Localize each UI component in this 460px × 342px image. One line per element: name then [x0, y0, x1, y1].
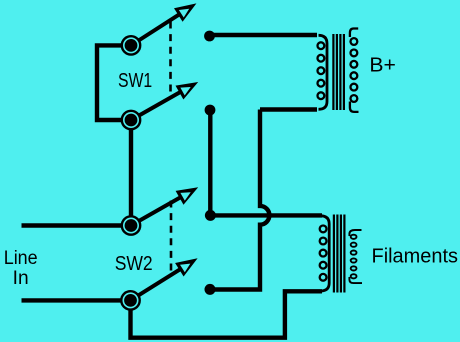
SW1 lower pole contact	[122, 111, 140, 129]
switch SW2 lower blade	[138, 258, 198, 295]
SW2 lower pole contact	[121, 291, 139, 309]
SW1 gang dashed link	[169, 22, 172, 97]
wire: SW2 lower pole down, right, up to filament transformer primary bottom	[131, 291, 323, 337]
svg-text:B+: B+	[369, 54, 396, 76]
SW2 upper pole contact	[122, 216, 140, 234]
wire: node D1 to B+ transformer primary top	[210, 33, 318, 37]
wire: SW1 lower pole to SW2 upper pole	[129, 120, 133, 226]
wire: Line In bottom lead	[22, 298, 132, 302]
transformer T2 (Filaments) secondary winding	[349, 230, 362, 283]
switch SW2 upper blade	[139, 187, 198, 221]
transformer T1 (B+) core	[333, 34, 344, 110]
wire: B+ primary bottom lead	[260, 107, 317, 111]
svg-text:SW2: SW2	[115, 253, 153, 275]
transformer T1 (B+) secondary winding	[350, 29, 359, 112]
switch SW1 lower blade	[139, 82, 198, 116]
node D4	[205, 284, 216, 295]
svg-text:Line: Line	[4, 248, 38, 269]
node D1	[204, 31, 215, 42]
SW2 gang dashed link	[170, 201, 173, 274]
wire: node D3 to filament transformer primary top	[210, 213, 322, 217]
node D3	[205, 210, 216, 221]
svg-text:SW1: SW1	[118, 70, 152, 92]
svg-text:Filaments: Filaments	[372, 246, 459, 268]
transformer T1 (B+) primary winding	[318, 35, 328, 109]
SW1 upper pole contact	[122, 36, 140, 54]
wire: Line In top lead	[22, 223, 132, 227]
transformer T2 (Filaments) core	[334, 215, 345, 293]
switch SW1 upper blade	[139, 3, 197, 40]
node D2	[205, 105, 216, 116]
svg-text:In: In	[13, 268, 29, 289]
wire: SW1 pole-jumper bracket	[97, 45, 131, 120]
wire: B+ primary bottom down to node D4, with hop over filament wire	[210, 110, 269, 290]
wire: node D2 down to node D3	[208, 110, 212, 215]
transformer T2 (Filaments) primary winding	[320, 216, 330, 291]
